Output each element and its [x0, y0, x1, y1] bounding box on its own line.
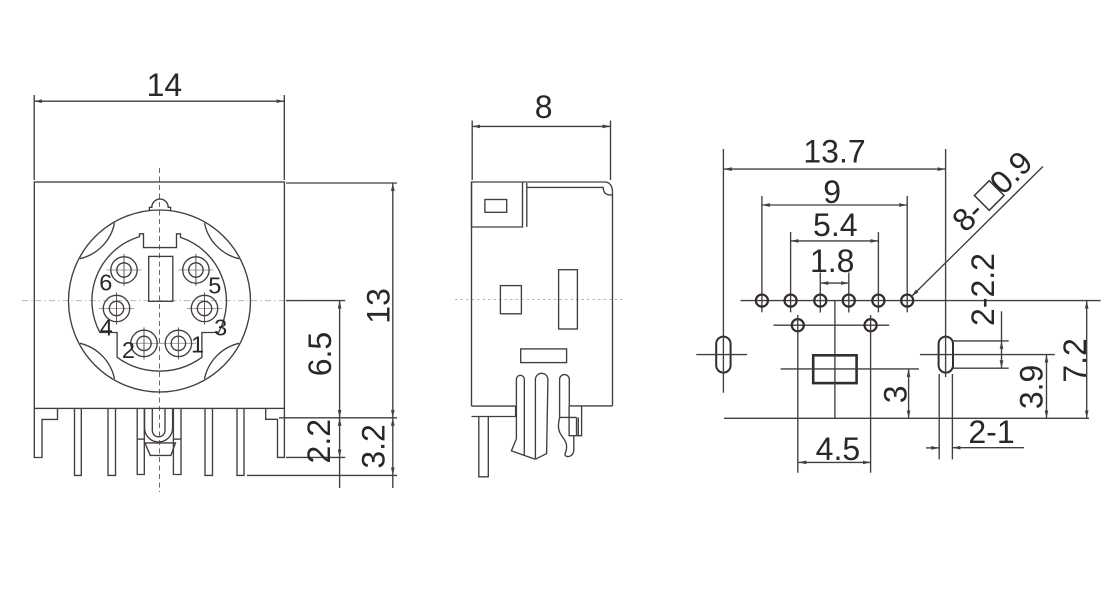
horizontal centerline: [22, 300, 300, 302]
leg F: [237, 408, 244, 475]
hole row2 left: [792, 319, 804, 331]
dim 2-2.2 ext lines: [953, 340, 1009, 342]
pin 1 side: [516, 375, 524, 455]
dim 13 line: [392, 183, 394, 418]
dim 3.9 line: [1046, 355, 1048, 419]
ext line step bottom (13/6.5/2.2/3.2): [279, 417, 397, 419]
left mounting pin: [479, 417, 489, 477]
hole 4 tick: [848, 273, 850, 313]
row1 hole axis line: [741, 300, 1101, 302]
dim 7.2 line: [1086, 301, 1088, 419]
svg-text:9: 9: [823, 174, 841, 210]
ear lower-right: [205, 343, 240, 379]
ear lower-left: [80, 343, 115, 379]
svg-text:5: 5: [208, 272, 221, 298]
hole 5 tick: [877, 232, 879, 312]
svg-text:8-: 8-: [945, 193, 991, 239]
outer circle: [69, 210, 251, 392]
row2 hole axis line: [773, 324, 889, 326]
hole row1 n4: [843, 295, 855, 307]
pin middle side: [535, 373, 548, 459]
hole row1 n2: [785, 295, 797, 307]
svg-text:4: 4: [100, 315, 113, 341]
leg C (left of latch): [137, 408, 144, 474]
pin 5 crosshair: [178, 269, 213, 271]
dim 2-1 left outside arrow: [926, 447, 939, 449]
hole row1 n3: [814, 295, 826, 307]
dim 1.8 line: [820, 282, 849, 284]
dim 4.5 line: [798, 461, 870, 463]
svg-text:2.2: 2.2: [301, 419, 337, 463]
dim 8 line: [472, 125, 610, 127]
svg-text:4.5: 4.5: [816, 431, 860, 467]
flange window: [485, 200, 507, 213]
dim 9 line: [762, 204, 907, 206]
dim 3 line: [908, 369, 910, 418]
svg-text:2-2.2: 2-2.2: [965, 253, 1001, 326]
svg-text:2-1: 2-1: [968, 414, 1014, 450]
hole 3 tick: [819, 273, 821, 313]
svg-text:0.9: 0.9: [982, 144, 1039, 201]
svg-text:3.2: 3.2: [356, 424, 392, 468]
leg E: [205, 408, 213, 475]
hole row1 n1: [756, 295, 768, 307]
svg-text:13: 13: [361, 288, 397, 324]
latch inner U: [152, 409, 165, 437]
left slot crosshair: [696, 354, 747, 356]
label 8-sq-0.9: [945, 144, 1039, 238]
svg-text:6.5: 6.5: [302, 332, 338, 376]
hole row1 n6: [901, 295, 913, 307]
dim 2.2 line: [339, 418, 341, 458]
ear upper-right: [205, 223, 240, 259]
rect horizontal centerline: [781, 368, 919, 370]
dim 8 extension lines: [471, 121, 473, 181]
bottom edge right: [569, 405, 612, 407]
fold strip: [576, 417, 578, 435]
right slot: [939, 337, 953, 373]
pin 5: [183, 257, 209, 283]
svg-text:13.7: 13.7: [803, 133, 865, 169]
ear upper-left: [80, 223, 115, 259]
ext line center right (6.5): [286, 300, 345, 302]
pin 4: [103, 295, 129, 321]
dim 13.7 line: [724, 168, 946, 170]
pin 1 crosshair: [161, 342, 196, 344]
svg-text:1.8: 1.8: [810, 243, 854, 279]
right slot edge ext lines (2-1): [938, 374, 940, 459]
right slot crosshair: [920, 354, 1055, 356]
svg-text:14: 14: [147, 67, 183, 103]
right mount tab and step: [266, 408, 285, 457]
mid square window: [500, 286, 521, 314]
svg-text:5.4: 5.4: [813, 207, 857, 243]
row2 right tick / 4.5 ext: [870, 315, 872, 473]
central rectangle: [813, 355, 856, 383]
pin 4 crosshair: [99, 308, 134, 310]
left slot: [716, 337, 730, 373]
svg-text:6: 6: [99, 270, 112, 296]
pin 6 crosshair: [107, 269, 142, 271]
dim 2-2.2 line: [1001, 311, 1003, 341]
latch outer U: [145, 409, 173, 442]
pin 3: [191, 295, 217, 321]
left mount tab and step: [34, 408, 57, 457]
lower window: [521, 349, 567, 363]
hole 1 tick: [761, 196, 763, 312]
latch trapezoid: [145, 443, 176, 456]
bottom edge left: [472, 405, 516, 407]
svg-text:7.2: 7.2: [1057, 338, 1093, 382]
pin 6: [111, 257, 137, 283]
latch bump: [149, 199, 170, 211]
dim 14 extension lines: [33, 95, 35, 180]
hole row2 right: [865, 319, 877, 331]
row2 left tick / 4.5 ext: [797, 315, 799, 473]
ext line tab bottom (2.2): [286, 456, 345, 458]
dim 3.2 line: [392, 418, 394, 476]
right leg: [569, 406, 582, 436]
pin right side (J hook): [560, 375, 570, 418]
svg-text:8: 8: [535, 89, 553, 125]
bottom reference line: [724, 417, 1089, 419]
svg-text:1: 1: [191, 332, 204, 358]
svg-text:3.9: 3.9: [1014, 365, 1050, 409]
fold line: [560, 416, 577, 418]
svg-text:3: 3: [878, 385, 914, 403]
body rectangle: [34, 182, 284, 408]
bottom ledge: [472, 406, 516, 416]
dim 14 line: [34, 100, 284, 102]
body outline: [472, 182, 613, 406]
key slot rectangle: [149, 256, 173, 301]
dim 5.4 line: [791, 240, 879, 242]
pin 1: [165, 330, 191, 356]
horizontal centerline: [455, 299, 625, 301]
leg D (right of latch): [173, 408, 181, 474]
ext line leg bottom (3.2): [247, 474, 397, 476]
svg-text:3: 3: [214, 315, 227, 341]
pin 2: [131, 330, 157, 356]
hole row1 n5: [872, 295, 884, 307]
pin 3 crosshair: [187, 308, 222, 310]
leader 8-0.9: [912, 167, 1043, 297]
hole 2 tick: [790, 232, 792, 312]
ext line top right (13): [286, 182, 397, 184]
flange: [472, 182, 523, 227]
dim 2-1 leader and right arrow: [952, 447, 1024, 449]
rect vertical centerline: [834, 301, 836, 419]
leg A: [75, 408, 82, 475]
hole 6 tick: [906, 196, 908, 312]
leg B: [108, 408, 116, 475]
dim 6.5 line: [339, 301, 341, 418]
pin 2 crosshair: [127, 342, 162, 344]
vertical centerline: [159, 168, 161, 492]
inner recess outline: [92, 234, 227, 371]
mid tall window: [559, 270, 578, 329]
top inner fold line: [527, 187, 613, 195]
svg-text:2: 2: [122, 337, 135, 363]
